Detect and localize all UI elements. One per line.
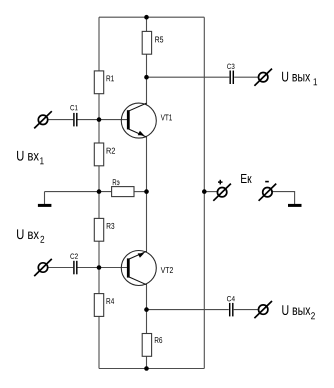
label U vyx2 bbox=[282, 305, 315, 319]
node top rail R5 bbox=[144, 15, 149, 20]
wire top rail bbox=[99, 16, 204, 18]
wire C3 to output1 terminal bbox=[234, 76, 258, 78]
resistor R2 bbox=[94, 143, 103, 166]
resistor R4 bbox=[94, 294, 103, 317]
node bottom rail R6 bbox=[144, 366, 149, 371]
ground left bbox=[38, 204, 52, 207]
terminal input 1 bbox=[34, 111, 52, 128]
label U vyx1 bbox=[282, 72, 317, 85]
transistor VT1 bbox=[121, 103, 172, 138]
label U vx2 bbox=[17, 229, 44, 242]
node left rail ground bbox=[97, 189, 102, 194]
capacitor C1 bbox=[70, 105, 77, 126]
terminal output 1 bbox=[254, 69, 272, 86]
wire VT1 emitter to VT2 emitter bbox=[146, 136, 148, 252]
wire right rail bbox=[203, 17, 205, 368]
wire left rail R4 to bottom bbox=[98, 317, 100, 369]
wire mid top to R5 bbox=[146, 17, 148, 31]
capacitor C4 bbox=[227, 296, 235, 316]
wire VT2 base bbox=[99, 267, 128, 269]
wire left rail R2 to R3 bbox=[98, 166, 100, 219]
wire R6 to bottom rail bbox=[146, 356, 148, 369]
wire C1 to base node bbox=[77, 119, 99, 121]
transistor VT2 bbox=[121, 251, 173, 286]
resistor R1 bbox=[94, 71, 103, 94]
terminal input 2 bbox=[34, 259, 52, 276]
wire rail to Ek plus terminal bbox=[204, 191, 217, 193]
wire VT1 base bbox=[99, 119, 128, 121]
wire VT2 collector to R6 bbox=[146, 284, 148, 333]
wire input1 terminal to C1 bbox=[48, 119, 73, 121]
wire C4 to output2 terminal bbox=[234, 309, 259, 311]
node VT2 base bbox=[97, 265, 102, 270]
wire input2 terminal to C2 bbox=[48, 267, 73, 269]
wire output1 from collector node to C3 bbox=[147, 76, 230, 78]
wire Re to emitter node bbox=[134, 191, 147, 193]
label Ek bbox=[241, 174, 252, 183]
wire left ground stub bbox=[44, 192, 46, 205]
terminal Ek minus bbox=[259, 182, 277, 201]
wire left rail top segment bbox=[98, 17, 100, 71]
wire R5 to VT1 collector bbox=[146, 54, 148, 104]
node VT1 collector output bbox=[144, 75, 149, 80]
resistor Re (emitter) bbox=[112, 187, 134, 197]
wire left rail R1 to R2 bbox=[98, 94, 100, 144]
label U vx1 bbox=[17, 151, 44, 164]
wire left rail R3 to R4 bbox=[98, 241, 100, 294]
wire C2 to base node bbox=[77, 267, 99, 269]
node right rail Ek bbox=[202, 189, 207, 194]
ground right bbox=[288, 204, 302, 207]
resistor R5 bbox=[142, 31, 151, 54]
wire ground to Re bbox=[45, 191, 112, 193]
node emitters Re bbox=[144, 189, 149, 194]
terminal Ek plus bbox=[213, 180, 231, 201]
node VT2 collector output bbox=[144, 307, 149, 312]
node VT1 base bbox=[97, 117, 102, 122]
capacitor C2 bbox=[70, 254, 78, 275]
capacitor C3 bbox=[227, 64, 234, 84]
resistor R6 bbox=[142, 334, 151, 357]
wire output2 from collector node to C4 bbox=[147, 309, 229, 311]
wire bottom rail bbox=[99, 368, 204, 370]
wire Ek minus terminal to right ground bbox=[272, 192, 294, 205]
resistor R3 bbox=[94, 218, 103, 241]
terminal output 2 bbox=[254, 301, 272, 318]
